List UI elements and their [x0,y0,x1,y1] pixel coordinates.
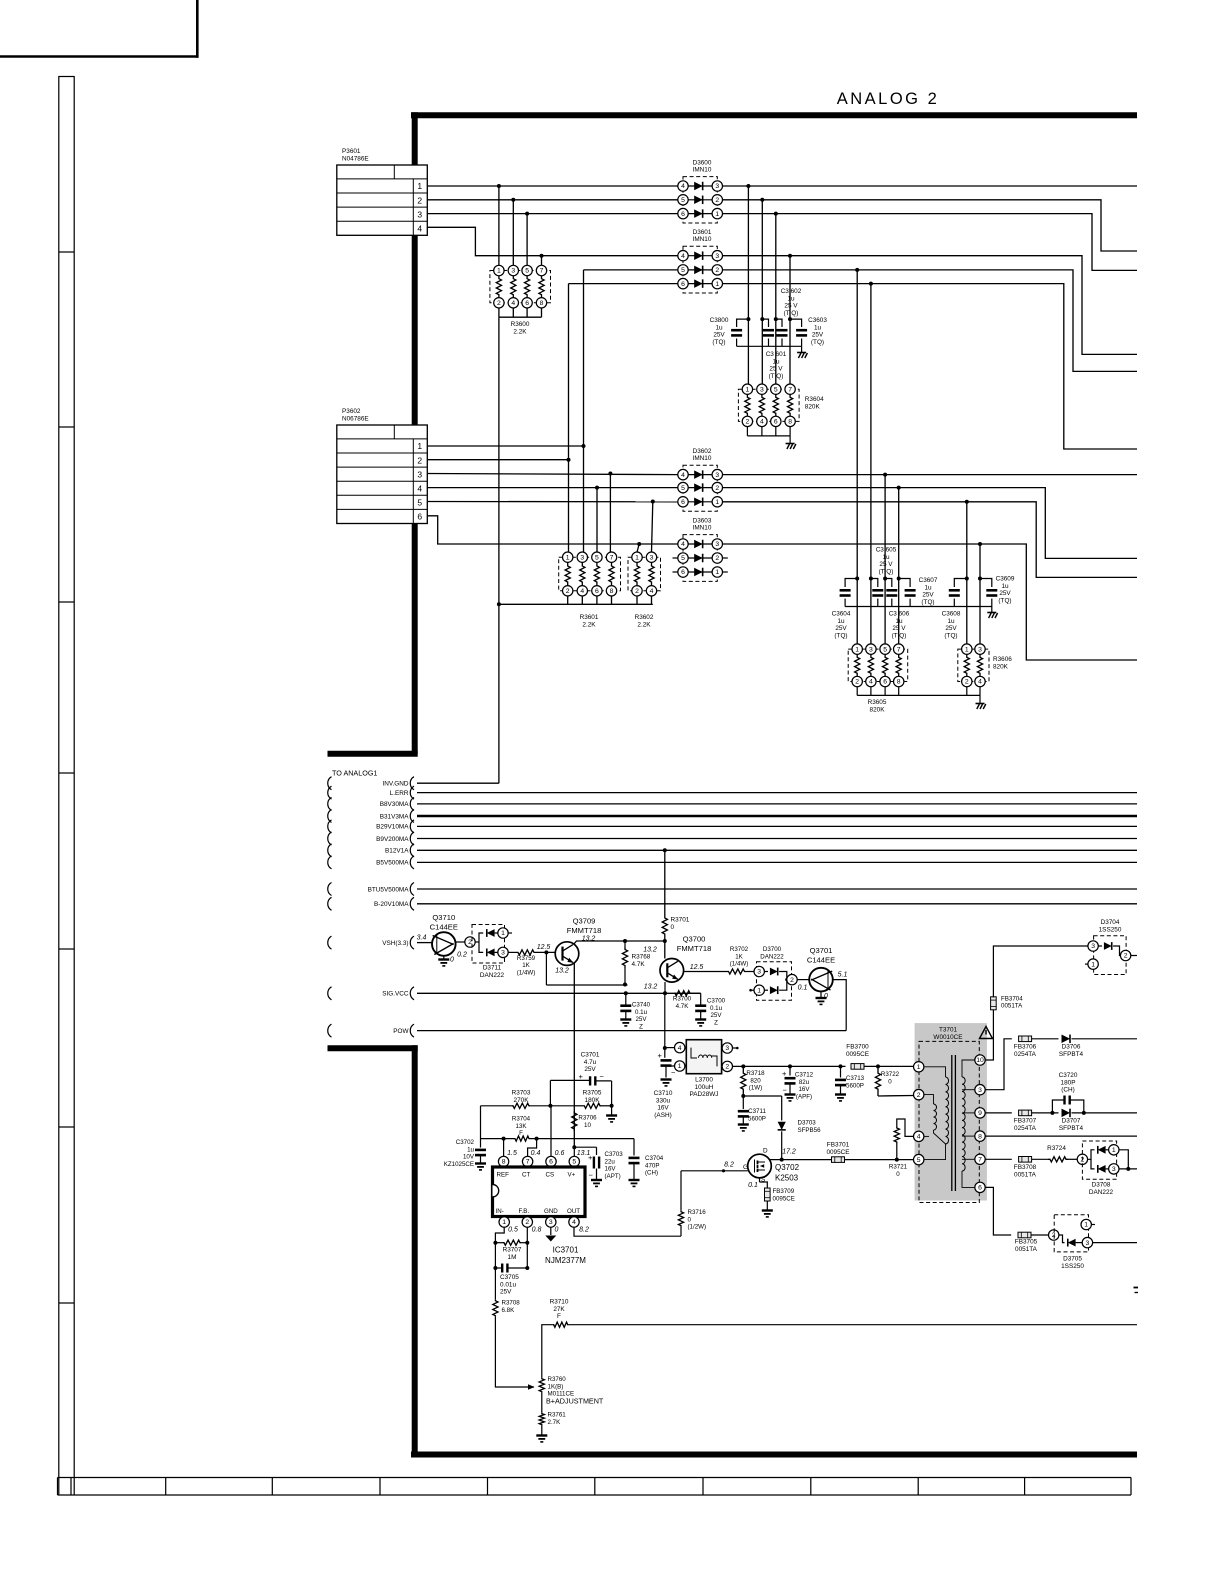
svg-text:7: 7 [526,1159,530,1166]
svg-text:0095CE: 0095CE [773,1195,795,1202]
svg-text:3: 3 [417,209,422,219]
svg-text:0254TA: 0254TA [1014,1051,1037,1058]
svg-text:+: + [579,1072,584,1081]
svg-text:R3724: R3724 [1047,1145,1066,1152]
svg-text:B31V3MA: B31V3MA [380,813,410,820]
svg-text:(TQ): (TQ) [921,599,934,606]
svg-text:16V: 16V [798,1086,810,1093]
svg-text:1: 1 [965,646,969,653]
svg-text:(TQ): (TQ) [712,339,725,346]
svg-text:2: 2 [715,555,719,562]
svg-text:1K(B): 1K(B) [548,1383,564,1390]
svg-text:2: 2 [417,195,422,205]
svg-text:R3722: R3722 [881,1071,900,1078]
svg-text:2.2K: 2.2K [513,328,527,335]
svg-text:N04786E: N04786E [342,156,369,163]
svg-text:R3600: R3600 [511,321,530,328]
svg-text:FB3704: FB3704 [1001,995,1023,1002]
svg-text:1: 1 [501,930,505,937]
svg-text:R3705: R3705 [583,1090,602,1097]
svg-text:2.2K: 2.2K [637,621,651,628]
svg-text:25V: 25V [835,625,847,632]
svg-text:R3708: R3708 [502,1300,521,1307]
svg-text:C3700: C3700 [707,998,726,1005]
svg-text:1: 1 [855,646,859,653]
svg-text:(ASH): (ASH) [654,1112,671,1119]
svg-text:C3711: C3711 [748,1108,766,1115]
svg-text:5.1: 5.1 [838,972,848,979]
svg-text:1: 1 [715,499,719,506]
svg-text:C144EE: C144EE [430,923,458,932]
svg-text:2: 2 [635,588,639,595]
svg-text:FB3709: FB3709 [773,1188,795,1195]
svg-text:C3607: C3607 [919,577,938,584]
svg-text:−: − [600,1072,605,1081]
svg-text:+: + [588,1153,593,1162]
svg-text:1u: 1u [772,358,780,365]
svg-text:3.4: 3.4 [417,935,427,942]
svg-text:NJM2377M: NJM2377M [545,1256,586,1265]
svg-text:C3712: C3712 [795,1072,814,1079]
svg-text:1SS250: 1SS250 [1061,1263,1084,1270]
svg-text:FB3701: FB3701 [827,1142,850,1149]
svg-text:2: 2 [790,977,794,984]
svg-text:25V: 25V [999,590,1011,597]
svg-text:8: 8 [610,588,614,595]
svg-text:3: 3 [715,472,719,479]
svg-text:KZ1025CE: KZ1025CE [444,1161,474,1168]
svg-text:R3710: R3710 [550,1299,569,1306]
svg-text:100uH: 100uH [695,1084,714,1091]
svg-text:2: 2 [497,300,501,307]
svg-text:6: 6 [883,679,887,686]
svg-text:(T Q): (T Q) [892,632,907,639]
svg-text:R3702: R3702 [730,946,749,953]
svg-text:R3606: R3606 [993,656,1012,663]
svg-text:4: 4 [869,679,873,686]
svg-text:−: − [589,1171,594,1180]
svg-text:27K: 27K [553,1306,565,1313]
svg-text:82u: 82u [799,1079,810,1086]
svg-text:13K: 13K [515,1123,527,1130]
svg-text:G: G [743,1164,748,1171]
svg-text:1: 1 [746,386,750,393]
svg-text:IMN10: IMN10 [693,167,712,174]
svg-text:B8V30MA: B8V30MA [380,801,410,808]
svg-text:4: 4 [917,1134,921,1141]
svg-text:C3702: C3702 [456,1139,475,1146]
svg-text:180P: 180P [1061,1079,1076,1086]
svg-text:25V: 25V [584,1066,596,1073]
svg-text:IMN10: IMN10 [693,236,712,243]
svg-text:SIG.VCC: SIG.VCC [382,991,409,998]
svg-text:3: 3 [1112,1166,1116,1173]
svg-text:POW: POW [393,1028,409,1035]
svg-text:2: 2 [715,485,719,492]
svg-text:0.01u: 0.01u [500,1281,516,1288]
svg-text:270K: 270K [514,1097,530,1104]
svg-text:C3604: C3604 [832,611,851,618]
svg-text:R3707: R3707 [503,1247,522,1254]
svg-text:T3701: T3701 [939,1027,958,1034]
svg-text:4: 4 [681,472,685,479]
svg-text:C3740: C3740 [632,1002,651,1009]
svg-text:5: 5 [417,498,422,508]
svg-text:1: 1 [566,554,570,561]
svg-text:FMMT718: FMMT718 [677,944,712,953]
svg-text:0.8: 0.8 [532,1227,542,1234]
svg-text:2: 2 [715,267,719,274]
svg-text:F: F [557,1313,561,1320]
svg-text:R3718: R3718 [746,1070,765,1077]
svg-text:8: 8 [978,1133,982,1140]
svg-text:5: 5 [883,646,887,653]
svg-text:7: 7 [610,554,614,561]
svg-text:0.1u: 0.1u [635,1009,648,1016]
svg-text:CT: CT [522,1172,530,1179]
svg-text:+: + [658,1051,663,1060]
svg-text:330u: 330u [656,1097,671,1104]
svg-text:R3700: R3700 [673,996,692,1003]
svg-text:820K: 820K [870,706,886,713]
svg-text:13.2: 13.2 [643,947,657,954]
svg-text:2: 2 [917,1092,921,1099]
svg-text:6: 6 [549,1159,553,1166]
svg-text:L3700: L3700 [695,1077,713,1084]
svg-text:2: 2 [965,679,969,686]
svg-text:25V: 25V [922,592,934,599]
svg-text:1.5: 1.5 [507,1150,517,1157]
svg-text:Q3700: Q3700 [683,935,706,944]
svg-text:6: 6 [774,419,778,426]
svg-text:1: 1 [417,181,422,191]
svg-text:16V: 16V [657,1105,669,1112]
svg-text:1u: 1u [837,618,845,625]
svg-text:Q3709: Q3709 [573,917,596,926]
svg-text:(1/4W): (1/4W) [517,969,536,976]
svg-text:SFPBT4: SFPBT4 [1059,1125,1084,1132]
svg-text:1u: 1u [1001,583,1009,590]
svg-text:4: 4 [417,484,422,494]
svg-text:1: 1 [1084,1222,1088,1229]
svg-text:C3 606: C3 606 [889,611,910,618]
svg-text:1u: 1u [924,584,932,591]
svg-text:R3759: R3759 [517,955,536,962]
svg-text:2: 2 [855,679,859,686]
svg-text:D: D [763,1148,768,1155]
svg-text:−: − [783,1086,788,1095]
svg-text:(1/2W): (1/2W) [688,1224,707,1231]
svg-text:2.7K: 2.7K [548,1419,562,1426]
svg-text:0: 0 [450,957,454,964]
svg-text:8.2: 8.2 [579,1227,589,1234]
svg-text:C3720: C3720 [1059,1072,1078,1079]
svg-text:6: 6 [525,300,529,307]
svg-text:0.6: 0.6 [555,1150,565,1157]
svg-text:C3800: C3800 [710,317,729,324]
svg-text:1: 1 [417,441,422,451]
svg-text:5: 5 [774,386,778,393]
svg-text:4: 4 [681,541,685,548]
svg-text:B+ADJUSTMENT: B+ADJUSTMENT [546,1397,604,1406]
svg-text:FB3707: FB3707 [1014,1118,1037,1125]
svg-text:FB3705: FB3705 [1015,1239,1038,1246]
svg-text:3: 3 [715,253,719,260]
svg-text:3: 3 [715,183,719,190]
svg-text:1u: 1u [715,324,723,331]
svg-text:R3706: R3706 [578,1115,597,1122]
svg-text:Z: Z [639,1023,643,1030]
svg-text:8.2: 8.2 [724,1162,734,1169]
svg-text:−: − [671,1068,676,1077]
svg-text:V+: V+ [568,1172,576,1179]
svg-text:0051TA: 0051TA [1014,1171,1037,1178]
svg-text:L.ERR: L.ERR [390,790,409,797]
svg-text:0: 0 [888,1078,892,1085]
svg-text:D3706: D3706 [1062,1044,1081,1051]
svg-text:3: 3 [1086,1240,1090,1247]
svg-text:R3768: R3768 [632,954,651,961]
svg-text:3: 3 [549,1219,553,1226]
svg-text:IMN10: IMN10 [693,525,712,532]
svg-text:3: 3 [760,386,764,393]
svg-text:ANALOG 2: ANALOG 2 [837,90,940,108]
svg-text:2: 2 [566,588,570,595]
svg-text:TO ANALOG1: TO ANALOG1 [332,769,377,778]
svg-text:(TQ): (TQ) [998,597,1011,604]
svg-text:1: 1 [1112,1147,1116,1154]
svg-text:C3 605: C3 605 [876,547,897,554]
svg-text:3: 3 [1091,943,1095,950]
svg-text:INV.GND: INV.GND [382,781,408,788]
svg-text:4: 4 [650,588,654,595]
svg-text:25V: 25V [710,1012,722,1019]
svg-text:1: 1 [715,281,719,288]
svg-text:(APF): (APF) [796,1093,812,1100]
svg-text:5600P: 5600P [748,1115,766,1122]
svg-text:F.B.: F.B. [519,1208,530,1215]
svg-text:FB3706: FB3706 [1014,1044,1037,1051]
svg-text:1M: 1M [508,1254,517,1261]
svg-text:C3703: C3703 [605,1151,624,1158]
svg-text:13.2: 13.2 [644,984,658,991]
svg-text:1u: 1u [947,618,955,625]
svg-text:4: 4 [417,224,422,234]
svg-text:1: 1 [502,1219,506,1226]
svg-text:5600P: 5600P [846,1082,864,1089]
svg-text:5: 5 [917,1157,921,1164]
svg-text:4: 4 [681,253,685,260]
svg-text:2: 2 [417,455,422,465]
svg-text:10: 10 [584,1122,591,1129]
svg-text:D3707: D3707 [1062,1118,1081,1125]
svg-text:C3 602: C3 602 [781,288,802,295]
svg-text:25V: 25V [812,332,824,339]
svg-text:D3601: D3601 [693,229,712,236]
svg-text:C3713: C3713 [846,1075,865,1082]
svg-text:1u: 1u [814,324,822,331]
svg-text:0.4: 0.4 [531,1150,541,1157]
svg-text:25 V: 25 V [892,625,906,632]
svg-text:4: 4 [511,300,515,307]
svg-text:4: 4 [681,183,685,190]
svg-text:22u: 22u [605,1158,616,1165]
svg-text:IC3701: IC3701 [553,1246,579,1255]
svg-text:R3761: R3761 [548,1412,567,1419]
svg-text:B29V10MA: B29V10MA [376,824,409,831]
svg-text:0051TA: 0051TA [1001,1003,1023,1010]
svg-text:VSH(3.3): VSH(3.3) [382,940,408,947]
svg-text:REF: REF [497,1172,510,1179]
svg-text:8: 8 [502,1159,506,1166]
svg-text:9: 9 [978,1110,982,1117]
svg-text:R3760: R3760 [548,1376,567,1383]
svg-text:1: 1 [1091,961,1095,968]
svg-text:3: 3 [869,646,873,653]
svg-text:0.5: 0.5 [508,1227,518,1234]
svg-text:6: 6 [681,281,685,288]
svg-text:3: 3 [511,268,515,275]
svg-text:(TQ): (TQ) [811,339,824,346]
svg-text:6: 6 [595,588,599,595]
svg-text:(T Q): (T Q) [879,568,894,575]
svg-text:2: 2 [746,419,750,426]
svg-text:1u: 1u [787,295,795,302]
svg-text:0.1u: 0.1u [710,1005,723,1012]
svg-text:0095CE: 0095CE [826,1149,849,1156]
svg-text:R3602: R3602 [635,614,654,621]
svg-text:C3710: C3710 [654,1090,673,1097]
svg-text:0: 0 [896,1171,900,1178]
svg-text:B9V200MA: B9V200MA [376,836,409,843]
svg-text:BTU5V500MA: BTU5V500MA [368,886,410,893]
svg-text:DAN222: DAN222 [760,953,784,960]
svg-text:5: 5 [572,1159,576,1166]
svg-text:6: 6 [681,499,685,506]
svg-text:1SS250: 1SS250 [1099,926,1122,933]
svg-text:25 V: 25 V [879,561,893,568]
svg-text:6: 6 [681,569,685,576]
svg-text:(1W): (1W) [749,1085,762,1092]
svg-text:D3600: D3600 [693,160,712,167]
svg-text:D3705: D3705 [1063,1256,1082,1263]
svg-text:3: 3 [978,646,982,653]
svg-text:DAN222: DAN222 [480,972,505,979]
svg-text:1: 1 [678,1063,682,1070]
svg-text:D3703: D3703 [798,1120,817,1127]
svg-text:Z: Z [714,1019,718,1026]
svg-text:4.7K: 4.7K [632,961,646,968]
svg-text:8: 8 [788,419,792,426]
svg-text:(APT): (APT) [605,1173,621,1180]
svg-text:(CH): (CH) [1061,1087,1075,1094]
svg-text:4: 4 [580,588,584,595]
svg-text:PAD28WJ: PAD28WJ [689,1091,718,1098]
svg-text:IMN10: IMN10 [693,455,712,462]
svg-text:(T Q): (T Q) [784,310,799,317]
svg-text:C3603: C3603 [808,317,827,324]
svg-text:3: 3 [580,554,584,561]
svg-text:820K: 820K [993,663,1009,670]
svg-text:7: 7 [788,386,792,393]
svg-text:7: 7 [540,268,544,275]
svg-text:D3602: D3602 [693,448,712,455]
svg-text:1K: 1K [522,962,530,969]
svg-text:4: 4 [678,1045,682,1052]
svg-text:0: 0 [688,1216,692,1223]
svg-text:Q3701: Q3701 [810,946,833,955]
svg-text:1: 1 [497,268,501,275]
svg-text:SFPB56: SFPB56 [798,1127,822,1134]
svg-text:6.8K: 6.8K [502,1307,516,1314]
svg-text:0.1: 0.1 [798,985,808,992]
svg-text:0254TA: 0254TA [1014,1125,1037,1132]
svg-text:IN-: IN- [496,1208,504,1215]
svg-text:+: + [782,1069,787,1078]
svg-text:0: 0 [555,1227,559,1234]
svg-text:D3704: D3704 [1101,919,1120,926]
svg-text:0.1: 0.1 [748,1182,758,1189]
svg-text:1u: 1u [895,618,903,625]
svg-text:FB3708: FB3708 [1014,1164,1037,1171]
svg-text:K2503: K2503 [775,1174,799,1183]
svg-text:2: 2 [725,1064,729,1071]
svg-text:820: 820 [750,1077,761,1084]
svg-text:12.5: 12.5 [537,944,551,951]
svg-text:5: 5 [525,268,529,275]
svg-text:D3700: D3700 [763,946,782,953]
svg-text:1: 1 [635,554,639,561]
svg-text:DAN222: DAN222 [1089,1189,1114,1196]
svg-text:1: 1 [715,211,719,218]
svg-text:(TQ): (TQ) [834,632,847,639]
svg-text:25V: 25V [500,1289,512,1296]
svg-text:N06786E: N06786E [342,416,369,423]
svg-text:C3704: C3704 [645,1155,664,1162]
svg-text:0: 0 [671,924,675,931]
svg-text:CS: CS [546,1172,555,1179]
svg-text:1: 1 [917,1064,921,1071]
svg-text:SFPBT4: SFPBT4 [1059,1051,1084,1058]
svg-text:F: F [519,1130,523,1137]
svg-text:FMMT718: FMMT718 [567,926,602,935]
svg-text:3: 3 [757,969,761,976]
svg-text:B-20V10MA: B-20V10MA [374,901,409,908]
svg-text:R3701: R3701 [671,917,690,924]
svg-text:25V: 25V [713,332,725,339]
svg-text:C3608: C3608 [942,611,961,618]
svg-text:820K: 820K [805,403,821,410]
svg-text:12.5: 12.5 [690,964,704,971]
svg-text:W0010CE: W0010CE [933,1034,962,1041]
svg-text:P3602: P3602 [342,408,361,415]
svg-text:C3609: C3609 [996,576,1015,583]
svg-text:3: 3 [978,1087,982,1094]
svg-text:C3701: C3701 [581,1052,600,1059]
svg-text:8: 8 [897,679,901,686]
svg-text:D3711: D3711 [483,965,502,972]
svg-text:0051TA: 0051TA [1015,1246,1038,1253]
svg-text:180K: 180K [585,1097,601,1104]
svg-text:7: 7 [897,646,901,653]
svg-text:FB3700: FB3700 [846,1044,869,1051]
svg-text:C3 601: C3 601 [766,351,787,358]
svg-text:1u: 1u [467,1146,474,1153]
svg-text:(CH): (CH) [645,1170,658,1177]
svg-text:25V: 25V [945,625,957,632]
svg-text:R3605: R3605 [868,699,887,706]
svg-text:B5V500MA: B5V500MA [376,860,409,867]
